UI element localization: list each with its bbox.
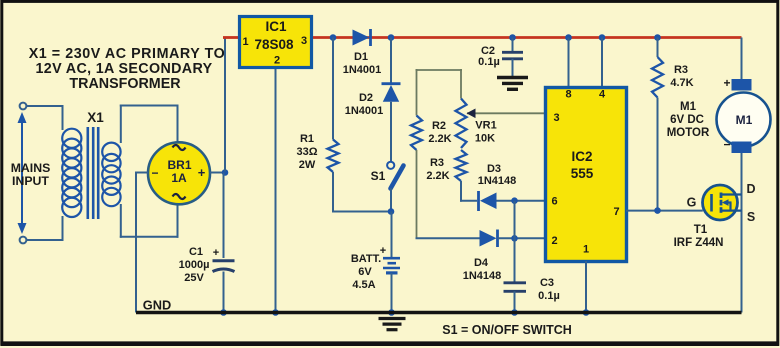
svg-text:1: 1 <box>242 36 248 48</box>
red positive wire into IC1 <box>223 36 239 39</box>
node BR1 plus junction <box>222 169 229 176</box>
svg-text:1000µ: 1000µ <box>179 259 210 271</box>
svg-text:−: − <box>723 138 730 152</box>
wire C1 to ground rail <box>223 272 225 313</box>
wire S1 to battery junction <box>390 188 392 212</box>
mosfet T1 body <box>703 185 738 220</box>
svg-text:1N4148: 1N4148 <box>463 270 502 282</box>
wire D2 to switch S1 <box>390 102 392 162</box>
wire IC2 pin1 to ground <box>585 261 587 313</box>
wire pin6 to pin2 vertical <box>514 201 516 239</box>
svg-text:X1: X1 <box>87 110 104 125</box>
svg-text:78S08: 78S08 <box>254 37 294 52</box>
diode D3 <box>477 191 480 211</box>
svg-text:555: 555 <box>571 166 594 181</box>
battery BATT <box>383 257 400 260</box>
svg-text:BR1: BR1 <box>167 158 191 172</box>
wire R3 to gate junction <box>657 98 659 211</box>
svg-text:D: D <box>746 182 755 196</box>
svg-text:GND: GND <box>143 298 171 313</box>
svg-text:4: 4 <box>599 89 606 101</box>
ground symbol battery <box>379 317 406 320</box>
svg-text:R3: R3 <box>430 157 444 169</box>
mosfet T1 source lead <box>721 210 742 212</box>
svg-text:MOTOR: MOTOR <box>667 127 710 139</box>
node C3 ground junction <box>511 309 518 316</box>
svg-text:1N4001: 1N4001 <box>343 64 382 76</box>
svg-text:BATT.: BATT. <box>351 253 381 265</box>
svg-text:R2: R2 <box>432 120 446 132</box>
resistor R3 4.7K <box>652 57 663 98</box>
node R3 rail junction <box>654 34 661 41</box>
svg-text:D3: D3 <box>487 163 501 175</box>
wire D4 to pin2 <box>498 237 546 239</box>
svg-text:4.5A: 4.5A <box>352 279 375 291</box>
node junction D2 top <box>388 34 395 41</box>
timer IC2 555 <box>546 88 627 262</box>
bridge rectifier BR1 <box>148 142 210 204</box>
svg-text:R3: R3 <box>674 64 688 76</box>
node C1 ground junction <box>220 309 227 316</box>
svg-text:2: 2 <box>274 55 280 67</box>
svg-text:+: + <box>723 76 730 90</box>
transformer X1 primary winding <box>62 129 81 148</box>
resistor R2 <box>411 116 422 151</box>
svg-text:33Ω: 33Ω <box>296 146 317 158</box>
wire D3 to pin6 <box>497 200 546 202</box>
motor M1 terminal bottom <box>732 142 752 154</box>
motor M1 <box>717 93 771 147</box>
svg-text:S: S <box>747 210 755 224</box>
svg-text:MAINS: MAINS <box>11 161 51 175</box>
svg-text:+: + <box>198 165 206 180</box>
mosfet T1 gate bar <box>710 194 713 212</box>
svg-text:2.2K: 2.2K <box>426 170 449 182</box>
node IC2 pin4 rail junction <box>599 34 606 41</box>
wire BR1 minus to ground <box>135 172 148 174</box>
svg-text:10K: 10K <box>475 133 495 145</box>
wire junction to C3 <box>514 238 516 282</box>
resistor R1 <box>328 140 339 173</box>
transformer X1 core <box>87 127 90 219</box>
transformer X1 secondary winding <box>102 143 120 161</box>
mosfet T1 channel <box>720 193 723 199</box>
wire R1 to junction <box>332 172 334 213</box>
svg-text:D4: D4 <box>474 257 489 269</box>
node pin6 junction <box>511 197 518 204</box>
svg-text:C1: C1 <box>189 246 203 258</box>
VR1 wiper arrow <box>467 112 545 114</box>
mosfet T1 arrow <box>729 203 731 211</box>
svg-text:8: 8 <box>565 89 571 101</box>
wire rail to IC2 pin8 <box>568 38 570 88</box>
mosfet T1 drain lead <box>721 193 742 195</box>
potentiometer VR1 <box>456 99 467 149</box>
node pin2 junction <box>511 235 518 242</box>
svg-text:M1: M1 <box>736 113 753 127</box>
svg-text:C3: C3 <box>540 277 554 289</box>
svg-text:T1: T1 <box>694 224 708 236</box>
svg-text:6V DC: 6V DC <box>670 114 704 126</box>
wire mains bottom to primary <box>26 239 64 241</box>
wire IC2 pin7 to gate <box>626 210 703 212</box>
switch S1 <box>387 162 394 169</box>
wire BR1 junction down to C1 <box>223 173 225 259</box>
svg-text:S1 = ON/OFF SWITCH: S1 = ON/OFF SWITCH <box>442 323 572 337</box>
wire battery to ground rail <box>391 273 393 313</box>
node C2 rail junction <box>509 34 516 41</box>
svg-text:−: − <box>151 166 158 180</box>
red positive rail <box>313 36 742 39</box>
svg-text:6V: 6V <box>358 266 372 278</box>
svg-text:2: 2 <box>551 235 557 247</box>
svg-text:3: 3 <box>301 35 307 47</box>
diode D4 <box>480 230 497 247</box>
svg-text:INPUT: INPUT <box>12 174 49 188</box>
wire BR1 plus up to IC1 input <box>224 37 226 172</box>
node mains terminal bottom <box>20 237 27 244</box>
svg-text:1N4148: 1N4148 <box>478 175 517 187</box>
svg-text:12V AC, 1A SECONDARY: 12V AC, 1A SECONDARY <box>35 61 212 77</box>
node gate junction <box>654 207 661 214</box>
node IC2 pin1 ground junction <box>583 309 590 316</box>
svg-text:3: 3 <box>553 112 559 124</box>
svg-text:D2: D2 <box>359 92 373 104</box>
svg-text:1A: 1A <box>171 171 187 185</box>
node junction R1 top <box>330 34 337 41</box>
wire secondary bottom to BR1 <box>120 204 122 238</box>
svg-text:R1: R1 <box>300 133 314 145</box>
svg-text:0.1µ: 0.1µ <box>478 56 500 68</box>
svg-text:1N4001: 1N4001 <box>345 105 384 117</box>
regulator IC1 78S08 <box>240 17 312 68</box>
svg-text:S1: S1 <box>371 169 386 183</box>
wire rail to D2 <box>390 38 392 84</box>
svg-text:25V: 25V <box>184 272 204 284</box>
svg-text:IRF Z44N: IRF Z44N <box>674 237 724 249</box>
wire rail to R3 4.7K <box>657 38 659 58</box>
svg-text:VR1: VR1 <box>475 120 496 132</box>
wire rail to motor <box>741 38 743 81</box>
svg-text:0.1µ: 0.1µ <box>538 290 560 302</box>
capacitor C1 <box>213 259 235 262</box>
ground rail <box>136 311 742 314</box>
node IC2 pin8 rail junction <box>565 34 572 41</box>
svg-text:TRANSFORMER: TRANSFORMER <box>69 76 181 92</box>
svg-text:4.7K: 4.7K <box>670 77 693 89</box>
mains input arrow <box>21 122 23 224</box>
node mains terminal top <box>20 103 27 110</box>
svg-text:X1 = 230V AC PRIMARY TO: X1 = 230V AC PRIMARY TO <box>29 46 226 62</box>
wire secondary top to BR1 <box>120 105 122 144</box>
wire rail to R1 <box>332 38 334 140</box>
capacitor C2 <box>502 51 523 54</box>
capacitor C3 <box>504 281 527 284</box>
svg-text:IC1: IC1 <box>265 19 287 34</box>
wire BR1 plus <box>210 172 226 174</box>
wire R2 line to D4 <box>416 237 481 239</box>
wire rail to IC2 pin4 <box>601 38 603 88</box>
wire junction to battery <box>391 212 393 258</box>
svg-text:2.2K: 2.2K <box>428 133 451 145</box>
wire IC1 pin2 to ground <box>275 69 277 313</box>
svg-text:IC2: IC2 <box>571 149 592 164</box>
node battery junction <box>388 208 395 215</box>
svg-text:6: 6 <box>551 196 557 208</box>
wire R2 to D4 line <box>416 150 418 239</box>
svg-text:+: + <box>213 247 219 259</box>
wire C3 to ground rail <box>514 291 516 312</box>
svg-text:2W: 2W <box>299 159 316 171</box>
wire rail to C2 <box>512 38 514 52</box>
wire C2 to ground symbol <box>512 59 514 77</box>
node battery ground junction <box>388 309 395 316</box>
svg-text:1: 1 <box>583 244 589 256</box>
wire motor to drain <box>741 153 743 313</box>
ground symbol C2 <box>497 76 528 79</box>
resistor R3 2.2K <box>456 150 467 181</box>
diode D2 <box>382 82 401 85</box>
svg-text:M1: M1 <box>680 101 697 113</box>
motor M1 terminal top <box>732 79 752 91</box>
wire R3 to D3 <box>460 181 462 202</box>
wire top bracket R2 VR1 <box>416 69 418 116</box>
svg-text:D1: D1 <box>354 51 368 63</box>
diode D1 <box>353 30 370 46</box>
svg-text:7: 7 <box>613 206 619 218</box>
node IC1 pin2 ground junction <box>272 309 279 316</box>
wire mains top to primary <box>26 105 64 107</box>
svg-text:G: G <box>687 196 697 210</box>
